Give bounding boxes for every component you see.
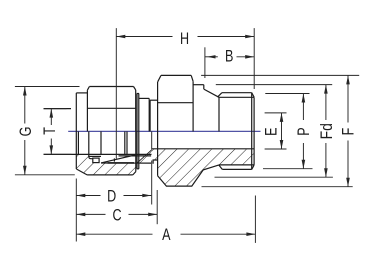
nut hub top [76,92,87,94]
thread chamfer bottom-right [252,165,254,169]
dim H line [116,36,172,38]
neck right edge top [203,85,205,89]
dim P extension top [265,93,309,95]
ferrule front face [100,131,102,154]
nut bottom right chamfer [133,172,136,175]
body hex facet line [158,102,193,104]
svg-text:T: T [40,127,59,135]
dim A extension right [254,196,256,243]
body step under nut [153,160,157,164]
svg-text:G: G [16,127,35,137]
svg-text:Fd: Fd [318,123,337,139]
dim G extension top [15,86,80,88]
bore line [152,148,254,150]
thread root line bottom [219,164,254,166]
dim H extension left [115,28,117,159]
hatch nut wedge [76,154,88,163]
svg-text:H: H [180,29,189,48]
tube line [44,153,152,155]
thread chamfer bottom-left [219,165,223,169]
body hex right edge [192,81,194,131]
nut top chamfer right [134,87,136,90]
dim P line [302,94,304,121]
ferrule divider pair [124,131,126,154]
dim T tick top [44,108,67,110]
nut hub inner edge [77,131,79,154]
hatch body under nut [137,150,152,163]
centerline [68,130,260,132]
dim B extension left [204,47,206,78]
nut hex left edge [86,90,88,131]
P ring bottom cap [137,168,139,170]
nut hex right edge [135,90,137,131]
hatch nut band [76,163,135,175]
dim C line [76,213,105,215]
dim D line [76,195,100,197]
nut thread step edge [89,131,93,158]
ring2 top [139,97,149,99]
P ring left edge [136,94,138,169]
thread chamfer top-left [218,93,222,97]
thread crest line bottom [222,168,251,170]
dim F extension top [201,74,359,76]
dimensions [15,28,359,243]
dim A line [76,233,152,235]
dim E tick bottom [265,148,287,150]
svg-text:F: F [339,128,358,136]
male end face [253,97,255,165]
dim B line [205,56,218,58]
dim E line [281,113,283,149]
thread chamfer circle edge [251,93,253,170]
neck top edge [193,84,204,86]
dim Fd extension top [216,84,332,86]
nut facet line [87,107,135,109]
tube upper ext line [44,108,72,110]
dim D extension right [151,131,153,149]
body seat edge [108,162,135,164]
dim Fd extension bottom [215,176,333,178]
nut top chamfer left [87,87,89,91]
front ferrule back edge [113,158,115,161]
thread runout top [204,89,219,97]
nut right edge below center [135,131,137,171]
ring3 top [150,99,158,101]
nut back face [75,93,77,169]
svg-text:E: E [262,127,281,135]
thread root line top [219,96,254,98]
body boundary slant [137,150,152,163]
seat line [101,162,151,164]
front ferrule cone [101,154,138,163]
dim E tick top [265,112,287,114]
nut bottom edge [87,174,133,176]
svg-text:P: P [294,127,313,135]
thread start edge [218,97,220,131]
dim T tick bottom [44,153,72,155]
nut pocket step [89,155,101,157]
dim C extension right [156,190,158,224]
dim Fd line [325,85,327,120]
dim G line [24,87,26,124]
dim G extension bottom [15,174,75,176]
nut top edge [89,86,133,88]
dim H/B extension right [253,28,255,89]
ring3 left edge [149,100,151,131]
body bore edge line [119,155,152,157]
dim T line [50,109,52,125]
fitting outline [44,75,255,186]
P ring top cap [137,93,139,95]
dim F extension bottom [202,186,353,188]
body hex left edge [157,82,159,176]
P ring right edge [138,94,140,169]
hatch body section [152,149,254,186]
dim F line [347,75,349,122]
svg-text:A: A [162,225,170,244]
ring2 right edge [148,98,150,131]
body hex chamfer top-left [158,75,161,81]
svg-text:C: C [112,205,121,224]
dim A extension left [75,179,77,242]
thread chamfer top-right [252,93,254,97]
body hex chamfer top-right [191,75,193,81]
body section bottom profile [158,165,220,186]
svg-text:D: D [107,187,116,206]
back ferrule [93,158,99,163]
svg-text:B: B [225,47,233,66]
nut bottom left chamfer [76,169,87,175]
thread crest line top [222,92,252,94]
body hex top edge [161,74,191,76]
dim P extension bottom [263,168,313,170]
